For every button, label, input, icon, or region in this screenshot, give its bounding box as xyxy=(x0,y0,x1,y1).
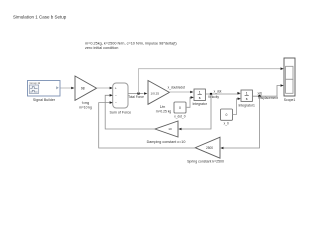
svg-text:Total Force: Total Force xyxy=(128,95,144,99)
svg-text:Signal Builder: Signal Builder xyxy=(33,98,56,102)
svg-text:x_dot_0: x_dot_0 xyxy=(174,114,186,118)
wire spring gain output to Sum port 3 xyxy=(99,103,196,148)
arrowhead into Integrator1 port 1 xyxy=(237,92,240,95)
svg-text:Simulation 1 Case b Setup: Simulation 1 Case b Setup xyxy=(13,14,67,19)
junction node x_dot branch xyxy=(210,93,212,95)
arrowhead into gain 1/m xyxy=(144,92,147,95)
svg-text:Velocity: Velocity xyxy=(208,95,219,99)
svg-text:10: 10 xyxy=(168,127,172,131)
wire gain 98 to Sum of Force port 1 xyxy=(97,87,110,89)
wire Signal Builder to gain f=mg xyxy=(61,87,72,89)
wire x_dot_0 to Integrator port 2 xyxy=(186,97,193,107)
wire x_dot feedback down to damping gain xyxy=(182,94,212,129)
block Signal Builder xyxy=(28,81,61,102)
arrowhead into damping gain input xyxy=(178,128,181,131)
svg-text:1/0.25: 1/0.25 xyxy=(151,91,160,95)
arrowhead into Integrator1 port 2 xyxy=(238,97,241,100)
arrowhead into Sum port 3 xyxy=(110,101,113,104)
svg-text:98: 98 xyxy=(81,86,85,90)
arrowhead into Scope input 1 xyxy=(281,67,284,70)
svg-text:m=10 kg: m=10 kg xyxy=(79,105,92,109)
gain 1/m (1/0.25) xyxy=(148,81,171,114)
svg-text:m=0.25kg, k=2500 N/m, c=10 N/m: m=0.25kg, k=2500 N/m, c=10 N/m, impulse … xyxy=(85,41,177,45)
arrowhead into Scope input 2 xyxy=(281,84,284,87)
wire Integrator1 output x(t) to Scope input 2 xyxy=(252,86,280,97)
wire x(t) feedback down to spring gain xyxy=(224,96,260,148)
svg-text:1: 1 xyxy=(246,92,248,96)
svg-text:1: 1 xyxy=(199,91,201,95)
wire Sum output to gain 1/m xyxy=(128,93,144,95)
junction node Total Force branch xyxy=(137,92,139,94)
arrowhead into gain f=mg xyxy=(71,87,74,90)
sum block Sum of Force xyxy=(110,83,132,115)
svg-text:x(t): x(t) xyxy=(257,92,262,96)
svg-text:0: 0 xyxy=(226,113,228,117)
block x_0 initial condition xyxy=(221,109,233,126)
svg-text:zero initial condition: zero initial condition xyxy=(85,46,118,50)
block Integrator xyxy=(192,89,207,106)
svg-text:−: − xyxy=(115,101,117,105)
wire branch up from Total Force to Scope input 1 xyxy=(139,69,281,94)
arrowhead into Sum port 1 xyxy=(110,87,113,90)
arrowhead into Integrator port 2 xyxy=(191,96,194,99)
block Scope1 xyxy=(284,58,296,102)
arrowhead into Integrator port 1 xyxy=(190,91,193,94)
gain f=mg (98) xyxy=(75,76,97,109)
block Integrator1 xyxy=(238,90,255,107)
svg-text:Spring constant k=2500: Spring constant k=2500 xyxy=(187,160,224,164)
svg-text:Displacement: Displacement xyxy=(259,96,278,100)
wire x_0 to Integrator1 port 2 xyxy=(233,99,240,115)
svg-text:Damping constant c=10: Damping constant c=10 xyxy=(147,140,186,144)
wire Integrator to Integrator1 (x_dot) xyxy=(205,93,239,95)
svg-text:x_0: x_0 xyxy=(224,122,229,126)
gain Spring constant k=2500 xyxy=(187,137,224,163)
svg-text:m=0.25 kg: m=0.25 kg xyxy=(156,109,172,113)
wire gain 1/m to Integrator xyxy=(169,91,190,93)
arrowhead into Sum port 2 xyxy=(110,94,113,97)
svg-text:s: s xyxy=(246,97,248,101)
svg-text:0: 0 xyxy=(179,106,181,110)
svg-text:2500: 2500 xyxy=(206,146,213,150)
svg-text:Integrator1: Integrator1 xyxy=(238,103,255,107)
svg-text:x_dot: x_dot xyxy=(214,90,222,94)
svg-text:+: + xyxy=(115,86,117,90)
junction node x(t) branch xyxy=(258,95,260,97)
arrowhead into spring gain input xyxy=(220,147,223,150)
svg-text:x_doubledot: x_doubledot xyxy=(168,85,185,89)
svg-text:Sum of Force: Sum of Force xyxy=(110,111,132,115)
wire damping gain output to Sum port 2 xyxy=(105,95,155,129)
svg-text:Scope1: Scope1 xyxy=(284,98,296,102)
svg-text:s: s xyxy=(199,96,201,100)
svg-text:−: − xyxy=(115,94,117,98)
svg-text:Integrator: Integrator xyxy=(192,102,207,106)
gain Damping constant c=10 xyxy=(147,121,186,144)
block x_dot_0 initial condition xyxy=(174,102,186,118)
svg-text:1/m: 1/m xyxy=(160,105,166,109)
svg-text:f=mg: f=mg xyxy=(82,101,90,105)
